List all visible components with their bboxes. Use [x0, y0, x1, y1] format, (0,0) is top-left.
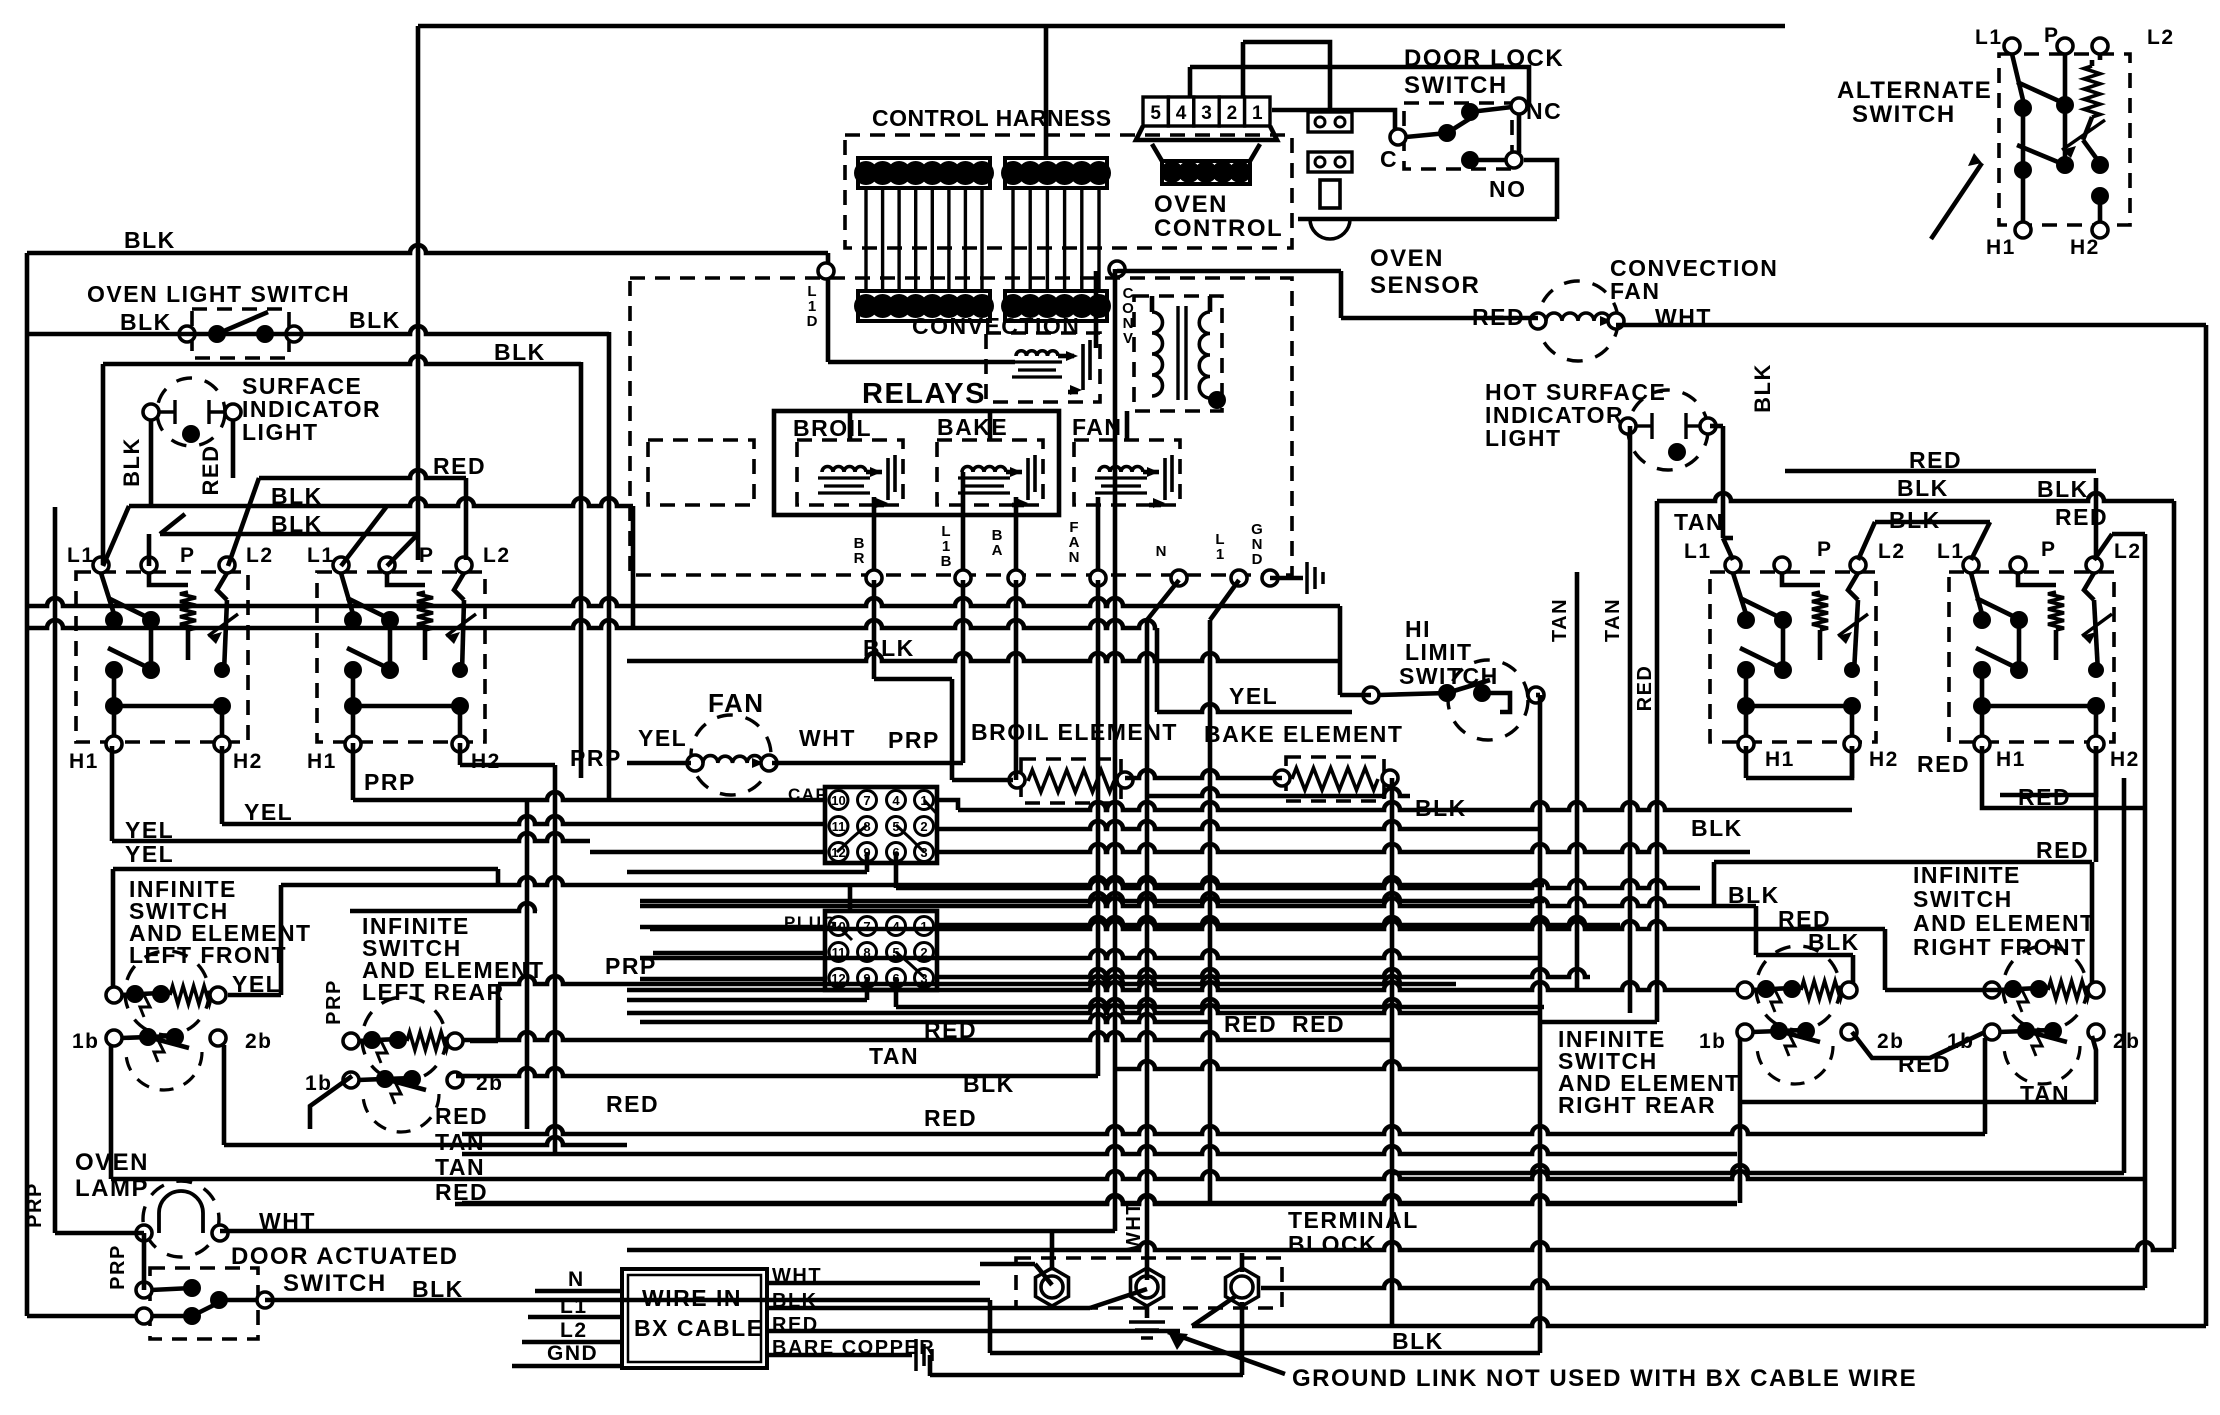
wire RED to L2 vertical	[464, 478, 469, 560]
wire harness drop	[1044, 26, 1049, 158]
infinite switch left B H1 terminal	[345, 736, 361, 752]
x	[54, 1232, 56, 1234]
wire diagonal L2 right-front	[2094, 534, 2112, 560]
svg-text:2b: 2b	[476, 1072, 504, 1095]
infinite element left rear element squiggle	[377, 1041, 387, 1063]
relay FAN core line 1	[1101, 484, 1141, 487]
infinite switch left B resistor	[417, 592, 433, 630]
wire bus F	[640, 893, 1544, 901]
wire left border BLK vertical	[25, 253, 30, 1316]
wire bus C from CAP pin2	[937, 821, 1540, 829]
infinite switch left B box	[317, 572, 485, 742]
relay BAKE box	[937, 440, 1043, 505]
oven light switch contact dot A	[208, 325, 226, 343]
infinite element right front switch arc	[2004, 1046, 2080, 1084]
wire YEL to CAP pin12	[590, 850, 825, 855]
svg-text:GND: GND	[1251, 521, 1263, 568]
svg-text:PRP: PRP	[364, 769, 416, 795]
svg-text:2b: 2b	[1877, 1030, 1905, 1053]
control harness box	[845, 135, 1292, 248]
wire RED 2b-1b link	[1852, 1032, 1985, 1058]
wire diagonal L1 sw1	[103, 506, 129, 566]
relay board terminal BR	[866, 570, 882, 586]
wire diagonal L1 right-rear	[1971, 522, 1990, 560]
wire RED right-front H1 run	[1982, 746, 2145, 808]
relay FAN coil base	[1095, 476, 1147, 479]
infinite switch right A blade A	[1740, 598, 1787, 621]
broil element left terminal	[1009, 772, 1025, 788]
svg-text:BLK: BLK	[772, 1290, 818, 1312]
wire H1 drop right A	[1744, 746, 1749, 778]
convection relay contact bar	[1081, 344, 1085, 390]
svg-text:P: P	[2044, 24, 2060, 47]
svg-text:1b: 1b	[1947, 1030, 1975, 1053]
relay BAKE coil lead	[1006, 470, 1022, 475]
infinite element right front switch dot B	[2044, 1022, 2062, 1040]
infinite switch left B junction bar	[353, 704, 460, 709]
infinite switch left B H2 terminal	[452, 736, 468, 752]
svg-text:PRP: PRP	[888, 727, 940, 753]
wire bus N1	[27, 598, 1340, 606]
door lock C wire	[1406, 133, 1447, 137]
oven light switch box	[192, 309, 289, 358]
infinite element right front element resistor	[2048, 981, 2090, 999]
alternate switch L2 stub	[2098, 54, 2103, 60]
infinite element left front 2b terminal	[210, 1030, 226, 1046]
infinite element left front element dot A	[126, 985, 144, 1003]
wire bottom bus TAN2	[111, 1171, 2145, 1179]
infinite switch left B variable arrow	[446, 614, 476, 636]
ribbon connector 2 wires	[1013, 188, 1099, 291]
svg-text:7: 7	[863, 919, 870, 934]
wire oven lamp left stub	[55, 1231, 144, 1236]
infinite switch left A link A-B	[149, 620, 154, 670]
infinite switch left A blade A	[108, 598, 155, 621]
infinite switch right B L2 terminal	[2086, 557, 2102, 573]
wire bus G BLK	[640, 898, 1756, 906]
wire L2 stub	[522, 1340, 622, 1345]
infinite switch left B junction dot A	[344, 697, 362, 715]
svg-text:RED: RED	[433, 453, 486, 479]
svg-text:PRP: PRP	[24, 1182, 46, 1228]
infinite switch right A resistor tail	[1818, 630, 1823, 660]
wire CONV trunk	[1113, 269, 1118, 1231]
wire BLK second run	[103, 356, 581, 364]
infinite switch left A wire to junction	[112, 670, 117, 706]
infinite switch right A wire to H2	[1850, 706, 1855, 736]
wire left-rear element out	[470, 1039, 498, 1044]
svg-text:H1: H1	[69, 750, 99, 773]
terminal block ground symbol	[1129, 1322, 1165, 1338]
svg-text:BLOCK: BLOCK	[1288, 1231, 1377, 1257]
wire oven sensor line	[1298, 217, 1557, 222]
svg-text:LIMIT: LIMIT	[1405, 639, 1473, 665]
svg-text:1b: 1b	[1699, 1030, 1727, 1053]
infinite switch left B dot A2	[381, 611, 399, 629]
hot surface left bar	[1650, 413, 1653, 439]
infinite switch right A junction bar	[1746, 704, 1852, 709]
oven sensor connector 1	[1308, 112, 1352, 132]
svg-text:FAN: FAN	[1072, 414, 1123, 440]
alternate switch box	[1999, 54, 2130, 225]
svg-text:SENSOR: SENSOR	[1370, 272, 1480, 299]
infinite switch left A P terminal	[141, 557, 157, 573]
wire door switch BLK drop	[988, 1300, 993, 1353]
alternate switch variable blade	[2083, 140, 2102, 166]
door switch upper terminal	[136, 1282, 152, 1298]
svg-text:L1: L1	[1215, 531, 1224, 563]
infinite element left rear switch dot A	[376, 1070, 394, 1088]
alternate switch H1 wire	[2021, 170, 2026, 222]
svg-text:ALTERNATE: ALTERNATE	[1837, 77, 1992, 104]
svg-text:BLK: BLK	[271, 483, 323, 509]
infinite switch left B wire to H2	[458, 706, 463, 736]
svg-text:BR: BR	[854, 535, 865, 567]
infinite switch left B variable blade	[462, 600, 464, 672]
infinite switch right B L1 terminal	[1963, 557, 1979, 573]
wire bus P	[1115, 1061, 1540, 1069]
svg-text:BLK: BLK	[2037, 476, 2089, 502]
broil element resistor	[1028, 770, 1114, 792]
infinite element left rear element circle	[362, 997, 446, 1081]
alternate switch L2 terminal	[2092, 38, 2108, 54]
wire label box left edge	[111, 869, 116, 988]
door switch lower terminal	[136, 1308, 152, 1324]
svg-text:RED: RED	[772, 1314, 819, 1336]
infinite switch right B H1 terminal	[1974, 736, 1990, 752]
infinite switch right B dot B1	[1973, 661, 1991, 679]
wire BA drop to broil element	[1014, 580, 1019, 780]
svg-text:BAKE ELEMENT: BAKE ELEMENT	[1204, 721, 1403, 747]
svg-text:L2: L2	[483, 544, 511, 567]
wire diagonal sw1 P	[160, 514, 185, 534]
wire top border	[418, 24, 1785, 29]
alternate switch P terminal	[2057, 38, 2073, 54]
convection fan left terminal	[1530, 313, 1546, 329]
oven control block skirt	[1136, 126, 1277, 140]
alternate switch H2 wire	[2098, 196, 2103, 222]
svg-text:P: P	[419, 544, 435, 567]
infinite switch left A resistor	[180, 592, 196, 630]
wire FAN trunk	[1096, 580, 1101, 1076]
infinite switch left B dot B1	[344, 661, 362, 679]
relay BAKE core line 2	[958, 491, 1010, 494]
svg-text:2: 2	[1227, 103, 1238, 124]
relay FAN top tick	[1125, 411, 1130, 440]
wire L1B drop	[961, 580, 966, 763]
svg-text:BLK: BLK	[1392, 1328, 1444, 1354]
infinite element left front element resistor	[170, 986, 212, 1004]
relay BROIL box	[797, 440, 903, 505]
svg-text:SWITCH: SWITCH	[283, 1270, 387, 1297]
wire L1D vertical	[826, 278, 831, 362]
wire main top trunk vertical	[416, 26, 421, 560]
infinite switch left B blade B	[347, 648, 394, 671]
PLUG link pin5-3	[896, 952, 924, 977]
relay BROIL top tick	[848, 411, 853, 440]
wire bake element right trunk	[1390, 778, 1395, 1328]
wire to C terminal	[1272, 110, 1395, 130]
relay BROIL coil arrow	[870, 467, 882, 477]
wire bus J BLK	[640, 950, 1540, 958]
wire bus M RED	[627, 1005, 1540, 1013]
svg-text:L1: L1	[1684, 540, 1712, 563]
relay FAN contact arrow	[1153, 498, 1165, 508]
infinite switch right B dot A2	[2010, 611, 2028, 629]
hi limit right terminal	[1528, 687, 1544, 703]
ribbon connector 1 bottom band	[858, 291, 990, 321]
infinite element right rear element dot B	[1783, 980, 1801, 998]
infinite element left front element left terminal	[106, 987, 122, 1003]
wire center-left trunk B	[553, 765, 558, 1154]
svg-text:FAN: FAN	[1069, 519, 1080, 566]
wire BLK1 run	[129, 498, 633, 506]
wire bus H from PLUG pin1	[937, 917, 1620, 925]
wire RED into right-front element	[1885, 988, 2004, 993]
relay FAN contact bar	[1163, 458, 1167, 500]
relay BAKE contact bar	[1026, 458, 1030, 500]
hi limit dot A	[1438, 684, 1456, 702]
wire pin4 up	[1188, 67, 1193, 97]
wire diagonal TAN L1	[1723, 538, 1733, 560]
svg-text:LIGHT: LIGHT	[1485, 425, 1562, 451]
wire BLK top horizontal	[27, 245, 828, 253]
infinite element right front element dot A	[2004, 980, 2022, 998]
infinite switch left B wire to junction	[351, 670, 356, 706]
infinite element right rear switch blade	[1779, 1031, 1820, 1042]
wire ground link arrow	[1168, 1332, 1285, 1374]
hot surface right lead	[1686, 424, 1701, 427]
wire bottom left link	[224, 1137, 627, 1145]
svg-text:L1: L1	[1975, 26, 2003, 49]
wire PRP link	[460, 763, 555, 768]
wire RED drop to element right	[2090, 862, 2095, 984]
svg-text:PRP: PRP	[570, 745, 622, 771]
transformer dot	[1208, 391, 1226, 409]
infinite switch left A wire P to resistor	[149, 573, 188, 585]
infinite switch right A dot C	[1844, 662, 1860, 678]
ribbon connector 2 top dots	[1001, 161, 1111, 185]
infinite element right rear element resistor	[1801, 981, 1843, 999]
svg-text:BLK: BLK	[1415, 795, 1467, 821]
wire diagonal L1 sw2	[341, 506, 387, 566]
infinite switch right A dot B1	[1737, 661, 1755, 679]
wire BLK-YEL link vertical	[1155, 628, 1160, 712]
infinite element right front element right terminal	[2088, 982, 2104, 998]
relay BROIL contact bar 2	[893, 455, 897, 492]
wire hex3 feed	[1240, 1253, 1245, 1272]
wire H2 drop sw1	[220, 746, 225, 824]
svg-text:BLK: BLK	[494, 339, 546, 365]
hi limit switch circle	[1448, 660, 1528, 740]
wire bottom bus TAN1	[462, 1146, 1737, 1154]
infinite element right rear 2b terminal	[1841, 1024, 1857, 1040]
relay board box	[630, 278, 1292, 575]
PLUG link pin10-8	[838, 926, 852, 940]
svg-text:BLK: BLK	[863, 635, 915, 661]
terminal block stud 3	[1226, 1268, 1259, 1306]
wire CAP pin9 down	[865, 852, 870, 872]
wire WHT BX link	[980, 1262, 1035, 1267]
wire YEL long run	[281, 877, 1544, 885]
wire PLUG pin6 down	[894, 977, 899, 1007]
alternate switch resistor	[2084, 66, 2100, 117]
door lock switch box	[1404, 103, 1512, 169]
infinite switch right A H1 terminal	[1738, 736, 1754, 752]
svg-text:TAN: TAN	[2020, 1081, 2070, 1107]
relay BAKE coil	[962, 467, 1006, 473]
relay BROIL contact arrow	[876, 498, 888, 508]
surface indicator left bar	[173, 400, 176, 424]
svg-text:NO: NO	[1489, 176, 1527, 202]
svg-text:4: 4	[892, 793, 900, 808]
svg-text:CONV: CONV	[1122, 285, 1134, 347]
svg-text:L1: L1	[307, 544, 335, 567]
infinite element right rear switch dot B	[1797, 1022, 1815, 1040]
relay BROIL contact bar	[886, 458, 890, 500]
wire RED indicator drop	[231, 421, 236, 478]
CAP link pin4-right	[924, 800, 937, 814]
svg-text:H2: H2	[2070, 236, 2100, 259]
wire hi-limit right stub	[1536, 693, 1540, 698]
alternate switch dot B1	[2014, 161, 2032, 179]
infinite switch right A dot A2	[1774, 611, 1792, 629]
svg-text:BLK: BLK	[120, 309, 172, 335]
svg-text:P: P	[2041, 538, 2057, 561]
wire TAN right-front run	[1738, 1100, 2096, 1105]
infinite switch right A wire to junction	[1744, 670, 1749, 706]
wire PLUG pin12 feed	[640, 977, 826, 982]
door switch dot B	[210, 1291, 228, 1309]
infinite switch right B arrowhead	[2082, 632, 2096, 644]
wire PLUG pin9 run left	[627, 998, 867, 1003]
wire TAN stub to L1	[1723, 536, 1733, 541]
transformer right lead	[1208, 296, 1213, 312]
svg-text:RED: RED	[1224, 1011, 1277, 1037]
svg-text:C: C	[1380, 146, 1398, 172]
svg-text:L2: L2	[246, 544, 274, 567]
wire GND stub	[1270, 576, 1303, 581]
bake element box	[1286, 757, 1384, 801]
svg-text:WHT: WHT	[799, 725, 856, 751]
wire BROIL relay output	[872, 497, 877, 572]
convection fan right terminal	[1608, 313, 1624, 329]
hi limit squiggle	[1482, 693, 1510, 712]
door switch dot A	[183, 1279, 201, 1297]
wire 2b drop left-front	[222, 1045, 227, 1145]
svg-text:H1: H1	[307, 750, 337, 773]
ribbon connector 2 bottom dots	[1001, 294, 1111, 318]
wire BLK2 run	[160, 532, 418, 537]
hi limit left terminal	[1363, 687, 1379, 703]
svg-text:TAN: TAN	[435, 1129, 485, 1155]
infinite element right front 1b terminal	[1984, 1024, 2000, 1040]
surface indicator right lead	[209, 410, 226, 413]
wire BLK indicator drop	[149, 421, 154, 506]
wire in BX cable box	[622, 1269, 767, 1368]
svg-text:BAKE: BAKE	[937, 414, 1008, 440]
bake element left terminal	[1274, 770, 1290, 786]
oven lamp circle	[143, 1181, 219, 1257]
svg-text:3: 3	[1201, 103, 1212, 124]
wire left border bottom corner	[27, 1314, 137, 1319]
wire RED BX output	[767, 1329, 1180, 1334]
infinite switch left B L1 terminal	[333, 557, 349, 573]
fan circle	[691, 715, 771, 795]
infinite element left rear switch blade	[385, 1079, 426, 1090]
infinite switch right B wire to junction	[1980, 670, 1985, 706]
alternate switch dot C	[2091, 156, 2109, 174]
infinite switch right B wire P to resistor	[2018, 573, 2056, 585]
transformer core 2	[1184, 306, 1187, 400]
svg-text:RIGHT FRONT: RIGHT FRONT	[1913, 934, 2087, 960]
transformer core 1	[1176, 306, 1179, 400]
transformer right coil	[1199, 312, 1210, 398]
wire bus B BLK	[1147, 788, 1410, 796]
svg-text:BLK: BLK	[1897, 475, 1949, 501]
bake element right terminal	[1382, 770, 1398, 786]
infinite switch left B dot C	[452, 662, 468, 678]
svg-text:OVEN: OVEN	[75, 1149, 149, 1176]
infinite switch right B dot B2	[2010, 661, 2028, 679]
wire bottom bus D	[1261, 1280, 2145, 1288]
convection relay box	[986, 333, 1100, 402]
wire left PRP vertical	[53, 507, 58, 1233]
ribbon connector 1 wires	[866, 188, 982, 291]
wire YEL to bake	[1157, 704, 1352, 712]
svg-text:BLK: BLK	[1889, 507, 1941, 533]
wire 1b right-front drop	[1983, 1038, 1988, 1134]
wire H2 right-front drop	[2094, 746, 2099, 862]
svg-text:BA: BA	[992, 527, 1003, 559]
svg-text:PRP: PRP	[107, 1244, 129, 1290]
svg-text:4: 4	[1176, 103, 1187, 124]
relay FAN contact lead	[1149, 503, 1161, 508]
infinite switch right A wire L1 down	[1733, 573, 1746, 614]
svg-text:BLK: BLK	[271, 511, 323, 537]
wire BLK P feed right	[1875, 520, 1990, 525]
svg-text:L1B: L1B	[941, 523, 952, 570]
svg-text:RED: RED	[2055, 504, 2108, 530]
infinite element left front element dot B	[152, 985, 170, 1003]
infinite switch right A arrowhead	[1838, 632, 1852, 644]
svg-text:L1: L1	[1937, 540, 1965, 563]
infinite switch right B wire to H2	[2094, 706, 2099, 736]
surface indicator left lead	[158, 410, 175, 413]
wire diagonal L1 relay	[1210, 580, 1239, 620]
relay BAKE contact lead	[1012, 503, 1024, 508]
svg-text:BROIL ELEMENT: BROIL ELEMENT	[971, 719, 1178, 745]
svg-text:RED: RED	[606, 1091, 659, 1117]
infinite switch right B P terminal	[2010, 557, 2026, 573]
bake element resistor	[1292, 768, 1378, 790]
svg-text:LIGHT: LIGHT	[242, 419, 319, 445]
convection relay coil	[1016, 351, 1058, 356]
alternate pointer arrowhead	[1968, 153, 1982, 166]
CAP connector box	[825, 787, 937, 863]
ground link arrowhead	[1168, 1332, 1188, 1350]
infinite switch right B blade B	[1976, 648, 2023, 671]
svg-text:BLK: BLK	[963, 1071, 1015, 1097]
broil element box	[1021, 759, 1121, 803]
door switch right terminal	[257, 1292, 273, 1308]
wire left-rear label box top	[350, 903, 537, 911]
infinite switch right B junction dot A	[1973, 697, 1991, 715]
infinite element left rear element resistor	[407, 1032, 449, 1050]
wire BLK top right run	[1657, 493, 2174, 501]
svg-text:YEL: YEL	[125, 817, 174, 843]
svg-text:INFINITE: INFINITE	[1913, 862, 2021, 888]
